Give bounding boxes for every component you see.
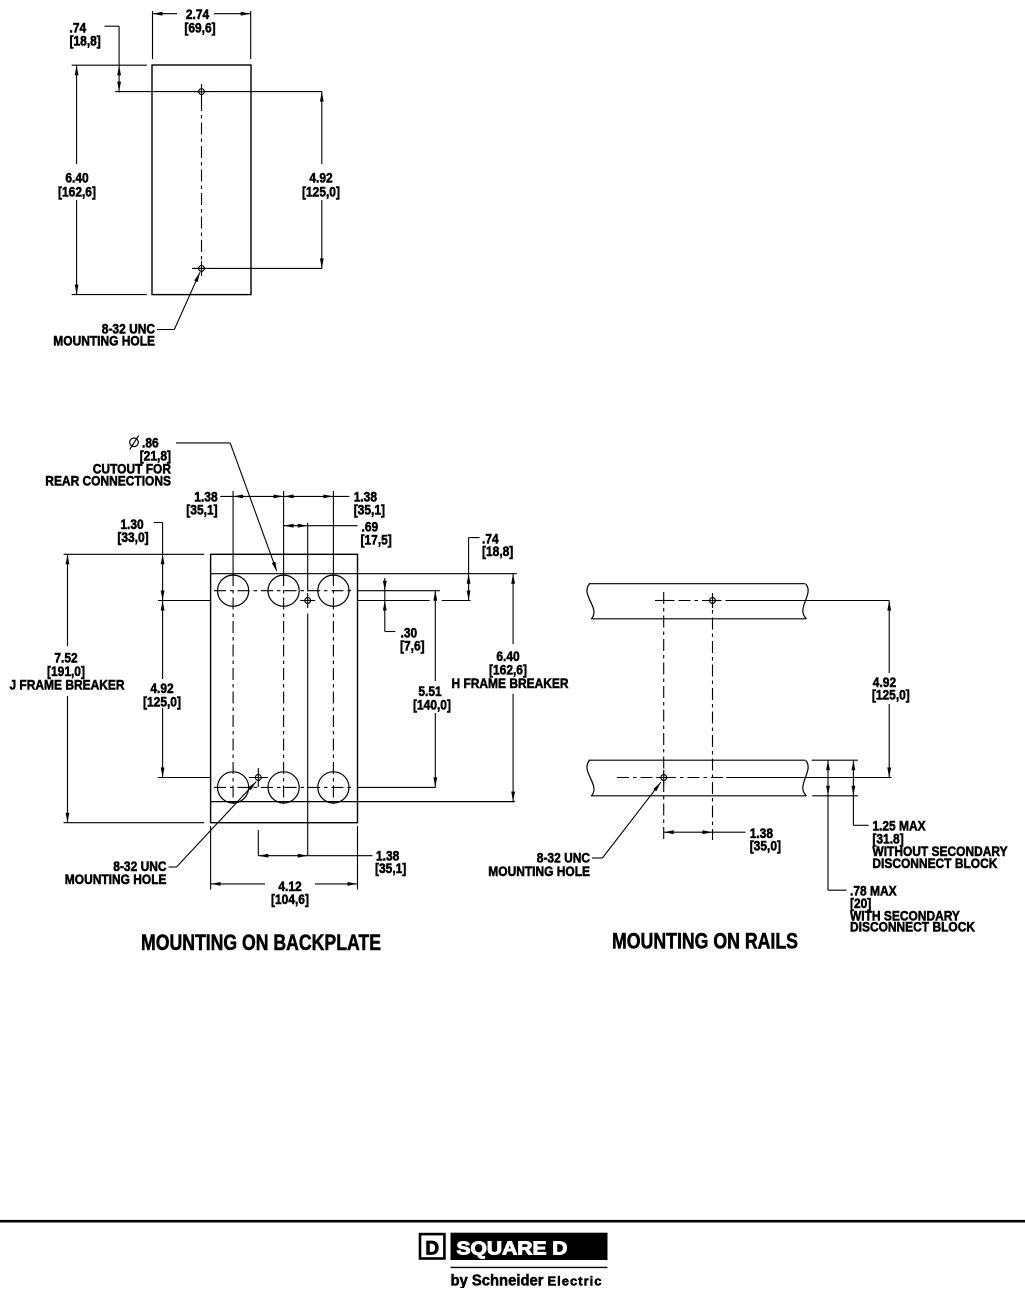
svg-text:DISCONNECT BLOCK: DISCONNECT BLOCK [872, 855, 997, 871]
svg-text:J FRAME BREAKER: J FRAME BREAKER [9, 677, 124, 693]
svg-text:MOUNTING HOLE: MOUNTING HOLE [488, 863, 590, 879]
svg-text:[18,8]: [18,8] [70, 33, 101, 49]
svg-text:[104,6]: [104,6] [271, 891, 309, 907]
svg-text:[33,0]: [33,0] [117, 529, 148, 545]
svg-text:[125,0]: [125,0] [302, 184, 340, 200]
svg-text:REAR CONNECTIONS: REAR CONNECTIONS [45, 473, 171, 489]
svg-text:[35,0]: [35,0] [750, 838, 781, 854]
svg-text:Electric: Electric [548, 1274, 602, 1289]
svg-text:[125,0]: [125,0] [872, 687, 910, 703]
svg-text:H FRAME BREAKER: H FRAME BREAKER [452, 675, 569, 691]
svg-text:MOUNTING HOLE: MOUNTING HOLE [65, 871, 167, 887]
svg-text:[35,1]: [35,1] [186, 502, 217, 518]
svg-text:[17,5]: [17,5] [361, 532, 392, 548]
svg-text:[125,0]: [125,0] [143, 694, 181, 710]
svg-text:by Schneider: by Schneider [451, 1273, 544, 1289]
svg-text:MOUNTING ON RAILS: MOUNTING ON RAILS [612, 929, 798, 954]
svg-text:[69,6]: [69,6] [184, 20, 215, 36]
svg-text:[140,0]: [140,0] [413, 697, 451, 713]
svg-text:D: D [425, 1239, 439, 1260]
svg-text:[162,6]: [162,6] [58, 184, 96, 200]
svg-text:MOUNTING HOLE: MOUNTING HOLE [53, 333, 155, 349]
svg-text:[35,1]: [35,1] [354, 502, 385, 518]
svg-text:SQUARE D: SQUARE D [457, 1238, 568, 1259]
svg-text:DISCONNECT BLOCK: DISCONNECT BLOCK [850, 919, 975, 935]
svg-text:MOUNTING ON BACKPLATE: MOUNTING ON BACKPLATE [141, 930, 381, 955]
svg-text:[35,1]: [35,1] [375, 860, 406, 876]
svg-text:[7,6]: [7,6] [400, 638, 425, 654]
svg-text:[18,8]: [18,8] [482, 543, 513, 559]
